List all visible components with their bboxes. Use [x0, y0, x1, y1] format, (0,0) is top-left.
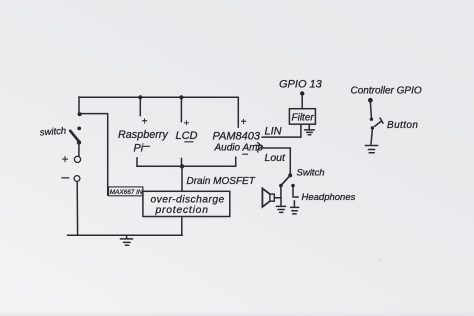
node switch left contact	[279, 184, 283, 188]
svg-text:Switch: Switch	[297, 168, 325, 179]
svg-text:Controller GPIO: Controller GPIO	[351, 86, 422, 97]
node raspberry top	[138, 95, 142, 99]
wire battery minus down	[76, 182, 78, 236]
svg-text:over-discharge: over-discharge	[151, 195, 225, 206]
wire speaker ground stub	[280, 198, 282, 206]
speaker	[262, 188, 274, 206]
label minus battery	[62, 177, 69, 179]
wire LIN to filter	[262, 124, 301, 137]
wire lcd minus stub	[181, 158, 183, 166]
node button bottom	[371, 126, 374, 129]
ground controller	[365, 146, 377, 153]
switch lever	[70, 131, 79, 142]
svg-text:Button: Button	[387, 120, 418, 131]
wire switch left down	[280, 187, 282, 198]
wire right corner to PAM plus	[237, 97, 239, 127]
svg-text:GPIO 13: GPIO 13	[279, 79, 323, 91]
wire lever to battery plus	[78, 144, 80, 157]
wire PAM minus stub	[235, 157, 237, 166]
battery + terminal	[74, 156, 80, 162]
box over-discharge protection	[143, 191, 230, 216]
svg-text:+: +	[62, 154, 69, 166]
wire drain mosfet	[181, 166, 183, 191]
svg-text:Lout: Lout	[265, 152, 287, 164]
svg-text:switch: switch	[39, 126, 66, 139]
svg-text:protection: protection	[155, 205, 209, 216]
wire left corner drop	[78, 97, 80, 114]
svg-text:Drain MOSFET: Drain MOSFET	[187, 176, 256, 187]
ground filter	[305, 124, 315, 134]
wire button to ground	[371, 130, 372, 144]
paper speck	[379, 259, 381, 261]
ground main	[120, 235, 132, 245]
svg-text:+: +	[241, 117, 247, 128]
label minus raspberry	[144, 145, 150, 147]
wire controller down	[370, 103, 371, 118]
button lever	[375, 118, 383, 126]
node switch top contact	[77, 126, 81, 130]
svg-text:Audio Amp: Audio Amp	[214, 143, 264, 154]
node gpio13	[300, 91, 304, 95]
node lcd bottom junction	[180, 164, 184, 168]
wire branch rail to protection	[80, 113, 108, 115]
headphone switch lever	[281, 176, 290, 186]
wire raspberry minus stub	[136, 158, 138, 166]
wire protection box to ground rail	[181, 217, 183, 236]
node headphone switch common	[288, 173, 292, 177]
node controller gpio	[368, 98, 373, 103]
wire LOUT	[262, 148, 291, 174]
svg-text:LIN: LIN	[265, 126, 282, 138]
box filter	[289, 109, 315, 125]
label minus pam	[243, 153, 248, 155]
svg-text:LCD: LCD	[176, 130, 198, 142]
svg-text:Filter: Filter	[292, 113, 315, 124]
wire bottom ground rail	[68, 234, 183, 236]
ground speaker	[276, 206, 285, 212]
node main junction	[78, 112, 82, 116]
battery - terminal	[74, 176, 80, 182]
node switch right contact	[291, 184, 295, 188]
wire down to MAX667 IN	[107, 114, 109, 196]
wire raspberry plus stub	[139, 97, 141, 116]
box MAX667 IN tab	[109, 187, 143, 196]
svg-text:+: +	[142, 117, 148, 128]
wire headphones branch	[293, 187, 298, 197]
amp output arrow	[255, 143, 262, 151]
wire top power rail	[79, 96, 238, 98]
svg-text:Headphones: Headphones	[302, 192, 356, 203]
node lcd top	[179, 95, 183, 99]
wire speaker link	[274, 197, 281, 199]
label minus lcd	[185, 141, 193, 143]
svg-text:Pi: Pi	[134, 143, 144, 155]
wire bottom component rail	[137, 165, 236, 167]
svg-text:PAM8403: PAM8403	[213, 131, 261, 143]
svg-text:MAX667 IN: MAX667 IN	[110, 189, 143, 196]
bottom edge shade	[0, 310, 474, 316]
wire gpio13 to filter	[301, 96, 303, 109]
node button top	[370, 118, 373, 121]
svg-text:+: +	[184, 118, 190, 129]
svg-text:Raspberry: Raspberry	[118, 129, 168, 141]
ground headphones	[291, 201, 299, 214]
wire lcd plus stub	[180, 97, 182, 122]
